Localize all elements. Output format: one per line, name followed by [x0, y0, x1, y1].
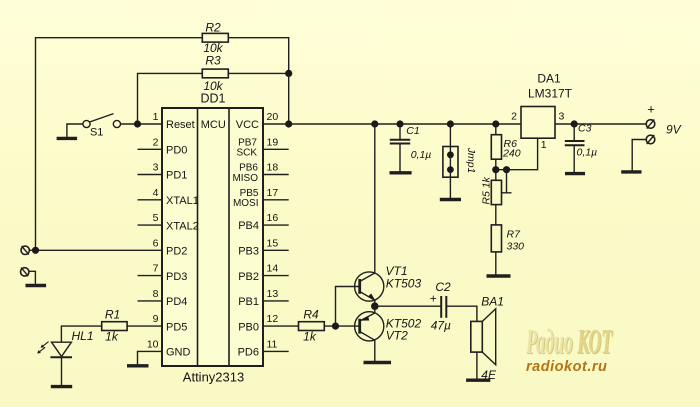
node rail Jmp1: [447, 120, 454, 127]
wire R3 left: [138, 73, 203, 124]
transistor VT1 base bar: [358, 279, 361, 294]
wire R3 right: [228, 72, 288, 74]
svg-text:3: 3: [559, 111, 565, 123]
wire pin5 stub: [138, 224, 163, 226]
svg-text:0,1µ: 0,1µ: [577, 147, 598, 159]
wire VCC rail pin20 to DA1: [263, 123, 521, 125]
wire pin4 stub: [138, 199, 163, 201]
svg-text:R3: R3: [205, 54, 221, 68]
wire pin11 stub: [263, 350, 289, 352]
svg-text:R7: R7: [507, 229, 522, 241]
svg-text:Reset: Reset: [166, 119, 195, 131]
node rail VT1 collector: [371, 120, 378, 127]
node rail R6: [492, 120, 499, 127]
jumper Jmp1 pin top: [447, 151, 454, 158]
resistor R6: [491, 135, 501, 160]
node T1 junction: [32, 247, 39, 254]
svg-text:XTAL2: XTAL2: [166, 220, 199, 232]
trimmer R5 wiper: [502, 170, 512, 193]
svg-text:2: 2: [511, 111, 517, 123]
wire C2 to speaker: [446, 306, 477, 321]
wire emitters to C2: [375, 305, 441, 307]
svg-text:330: 330: [507, 241, 525, 253]
wire C1 bottom: [399, 144, 401, 173]
wire VT2 collector to ground: [374, 340, 376, 362]
svg-text:XTAL1: XTAL1: [166, 195, 199, 207]
svg-text:15: 15: [267, 237, 279, 249]
transistor VT1 emitter diag: [360, 292, 375, 301]
transistor VT1 collector diag: [360, 273, 375, 282]
wire C3 top: [573, 124, 575, 140]
IC pin numbers left 1-10: [147, 111, 159, 350]
svg-text:8: 8: [153, 288, 159, 300]
svg-text:MCU: MCU: [201, 119, 226, 131]
wire pin7 stub: [138, 275, 163, 277]
svg-text:1k: 1k: [105, 330, 119, 344]
transistor VT1 circle: [355, 272, 384, 301]
switch S1 ground stem: [67, 124, 83, 138]
ground HL1: [51, 385, 72, 388]
svg-text:PD6: PD6: [238, 347, 259, 359]
LED HL1 cathode bar: [50, 356, 72, 358]
svg-text:12: 12: [267, 313, 279, 325]
wire LED to ground: [61, 357, 63, 386]
svg-text:PD1: PD1: [166, 170, 187, 182]
svg-text:11: 11: [267, 338, 278, 350]
resistor R2: [202, 33, 228, 42]
svg-text:MISO: MISO: [232, 173, 258, 184]
svg-text:HL1: HL1: [72, 329, 94, 343]
capacitor C2 plates: [441, 296, 446, 318]
transistor VT1 emitter arrow: [368, 294, 376, 302]
terminal T1 slash: [22, 246, 29, 255]
svg-text:14: 14: [267, 263, 279, 275]
resistor R1: [102, 322, 127, 331]
svg-text:PD2: PD2: [166, 246, 187, 258]
LED arrow 2: [37, 347, 45, 353]
ground C1: [390, 171, 412, 174]
wire pin12 to R4: [263, 325, 299, 327]
wire Jmp1 vertical: [449, 124, 451, 200]
switch S1 lever: [90, 114, 114, 122]
speaker BA1 body: [471, 321, 483, 352]
wire VT1 emitter: [374, 300, 376, 306]
ground VT2: [364, 361, 392, 364]
ground R7: [487, 274, 511, 277]
svg-text:DD1: DD1: [200, 92, 225, 106]
wire R6 bottom: [495, 159, 497, 180]
wire T2 to ground: [29, 271, 36, 284]
svg-text:10k: 10k: [203, 79, 223, 93]
svg-text:DA1: DA1: [537, 72, 561, 86]
wire C1 top: [399, 124, 401, 139]
transistor VT2 circle: [355, 312, 384, 341]
svg-text:BA1: BA1: [481, 295, 504, 309]
wire pin3 stub: [138, 174, 163, 176]
node bases junction: [332, 323, 339, 330]
svg-text:PD0: PD0: [166, 145, 187, 157]
regulator DA1 box: [521, 107, 555, 139]
transistor VT2 emitter diag: [360, 313, 375, 321]
wire pin16 stub: [263, 224, 289, 226]
transistor VT2 collector diag: [360, 332, 375, 341]
svg-text:GND: GND: [166, 347, 191, 359]
LED arrow 1: [41, 342, 49, 348]
wire pin8 stub: [138, 300, 163, 302]
svg-text:+: +: [647, 102, 655, 117]
svg-text:VT2: VT2: [386, 329, 408, 343]
ground 9V: [621, 170, 641, 173]
wire R4 to bases: [324, 325, 359, 327]
svg-text:240: 240: [502, 148, 521, 160]
resistor R7: [491, 225, 501, 252]
svg-text:PB3: PB3: [238, 246, 259, 258]
wire S1 to pin1: [121, 123, 163, 125]
node R2/R3 right junction: [285, 70, 292, 77]
node rail C1: [396, 120, 403, 127]
IC left pin labels: [166, 119, 199, 358]
wire VT1 collector: [374, 124, 376, 274]
wire base VT1: [336, 287, 360, 327]
resistor R5 trimmer: [491, 180, 501, 204]
svg-text:PB1: PB1: [238, 296, 259, 308]
svg-text:LM317T: LM317T: [528, 87, 573, 101]
svg-text:47µ: 47µ: [431, 319, 451, 333]
svg-text:PD4: PD4: [166, 296, 187, 308]
resistor R3: [202, 69, 228, 78]
node emitters: [371, 302, 379, 310]
node rail R2R3: [285, 120, 292, 127]
wire R1 left to LED: [61, 326, 101, 342]
svg-text:PD5: PD5: [166, 321, 187, 333]
svg-text:4: 4: [153, 187, 159, 199]
svg-text:PB2: PB2: [238, 271, 259, 283]
svg-text:C3: C3: [578, 123, 592, 135]
wire R2R3 down to VCC rail: [288, 73, 290, 124]
node R6/R5: [492, 166, 499, 173]
node R5 wiper top: [503, 166, 510, 173]
transistor VT2 base bar: [358, 319, 361, 334]
ground DD1: [127, 364, 149, 367]
svg-text:18: 18: [267, 162, 279, 174]
svg-text:0,1µ: 0,1µ: [411, 149, 432, 161]
svg-text:17: 17: [267, 187, 279, 199]
svg-text:VCC: VCC: [236, 119, 259, 131]
wire R1 to pin9 PD5: [127, 325, 162, 327]
ground C3: [565, 172, 585, 175]
svg-text:R2: R2: [205, 21, 221, 35]
resistor R4: [299, 322, 325, 331]
svg-text:radiokot.ru: radiokot.ru: [526, 359, 608, 375]
svg-text:13: 13: [267, 288, 279, 300]
svg-text:2: 2: [153, 136, 159, 148]
switch S1 contact left: [83, 120, 90, 127]
terminal 9V minus: [646, 135, 655, 144]
switch S1 contact right: [113, 120, 120, 127]
wire 9V minus to ground: [632, 140, 646, 172]
svg-text:1: 1: [541, 139, 547, 151]
node pin1 junction: [134, 120, 141, 127]
svg-text:PD3: PD3: [166, 271, 187, 283]
ground BA1: [466, 379, 490, 382]
svg-text:4E: 4E: [481, 368, 497, 382]
svg-text:1: 1: [153, 111, 159, 123]
svg-text:Jmp1: Jmp1: [465, 147, 477, 174]
wire VT2 emitter: [374, 306, 376, 313]
svg-text:Радио КОТ: Радио КОТ: [525, 322, 612, 361]
terminal 9V plus: [646, 120, 655, 129]
svg-text:5: 5: [153, 212, 159, 224]
wire R5 to R7: [495, 205, 497, 225]
wire R6 top: [495, 124, 497, 135]
wire DA1 out to 9V: [555, 123, 646, 125]
wire speaker to ground: [476, 352, 478, 380]
svg-text:R5 1k: R5 1k: [481, 176, 493, 204]
jumper Jmp1 pin bottom: [447, 166, 454, 173]
wire pin17 stub: [263, 199, 289, 201]
wire T1 to pin6 PD2: [29, 249, 162, 251]
svg-text:19: 19: [267, 136, 279, 148]
wire adj line: [496, 138, 538, 170]
svg-text:Attiny2313: Attiny2313: [183, 370, 244, 385]
wire pin10 GND: [138, 351, 163, 365]
svg-text:16: 16: [267, 212, 279, 224]
LED HL1 triangle: [52, 342, 72, 356]
svg-text:R1: R1: [105, 308, 120, 322]
svg-text:MOSI: MOSI: [233, 198, 259, 209]
terminal 9V plus slash: [647, 120, 655, 129]
svg-text:3: 3: [153, 162, 159, 174]
capacitor C1: [390, 140, 410, 144]
IC right pin labels: [236, 119, 259, 358]
svg-text:6: 6: [153, 237, 159, 249]
IC pin numbers right 20-11: [267, 111, 279, 350]
jumper Jmp1 box: [443, 147, 458, 178]
transistor VT2 emitter arrow: [361, 316, 370, 321]
svg-text:PB0: PB0: [238, 321, 259, 333]
switch S1 ground: [57, 137, 78, 140]
svg-text:S1: S1: [90, 127, 103, 139]
svg-text:1k: 1k: [303, 330, 317, 344]
svg-text:10: 10: [147, 338, 159, 350]
terminal 9V minus slash: [647, 135, 655, 144]
svg-text:R4: R4: [303, 308, 319, 322]
svg-text:C2: C2: [435, 280, 451, 294]
wire C3 bottom: [573, 145, 575, 173]
svg-text:KT503: KT503: [386, 277, 422, 291]
wire pin15 stub: [263, 249, 289, 251]
wire pin19 stub: [263, 148, 289, 150]
svg-text:20: 20: [267, 111, 279, 123]
wire pin13 stub: [263, 300, 289, 302]
svg-text:9V: 9V: [666, 123, 682, 137]
svg-text:C1: C1: [406, 125, 419, 137]
terminal T2 slash: [21, 268, 28, 277]
ground T2: [26, 284, 47, 287]
terminal input T1: [21, 246, 29, 254]
ground Jmp1: [440, 198, 461, 201]
IC DD1 outline: [162, 108, 263, 366]
svg-text:SCK: SCK: [236, 148, 257, 159]
speaker BA1 cone: [482, 309, 495, 365]
wire pin2 stub: [138, 148, 163, 150]
wire R2 left to PD2 column: [36, 38, 203, 251]
wire R2 right: [228, 38, 288, 74]
svg-text:7: 7: [153, 263, 159, 275]
node C3: [571, 120, 578, 127]
capacitor C3: [565, 141, 585, 145]
svg-text:9: 9: [153, 313, 159, 325]
terminal input T2: [21, 268, 29, 276]
wire pin14 stub: [263, 275, 289, 277]
wire pin18 stub: [263, 174, 289, 176]
svg-text:PB4: PB4: [238, 220, 259, 232]
wire R7 bottom: [495, 252, 497, 276]
